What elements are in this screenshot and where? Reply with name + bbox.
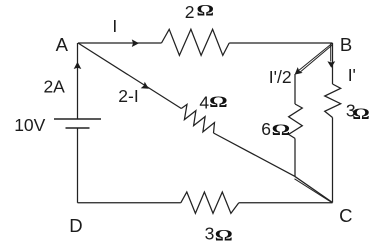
wire right edge B down to 3ohm [332,43,334,84]
svg-text:2-I: 2-I [118,86,138,106]
svg-text:C: C [339,205,352,226]
resistor 3ohm bottom zigzag [181,192,239,213]
svg-text:2A: 2A [43,77,65,97]
svg-text:4: 4 [199,93,209,113]
svg-text:2: 2 [185,2,195,22]
resistor 4ohm zigzag [181,104,214,133]
current arrow 2A [74,62,82,69]
wire 4ohm to 6ohm junction [214,133,295,176]
battery V1 plate long [54,118,101,120]
wire battery bottom to node D [77,128,79,203]
wire B to I'/2 arrow upper [297,43,332,72]
wire 3ohm to node C [239,202,333,204]
wire B to I'/2 arrow lower [299,45,333,74]
wire 2ohm to node B [229,42,332,44]
svg-text:B: B [340,34,352,55]
svg-text:Ω: Ω [197,3,215,20]
resistor 2ohm zigzag [162,29,230,55]
wire 3ohm right to node C [332,118,334,203]
svg-text:I'/2: I'/2 [269,67,292,87]
svg-text:I': I' [348,65,356,85]
svg-text:Ω: Ω [209,94,228,111]
wire top-left A to 2ohm resistor [78,42,162,44]
wire diagonal A to 4ohm [78,43,181,109]
battery V1 plate short [66,127,90,129]
wire I' arrow annotation line [330,44,332,62]
current arrow 2-I [141,82,149,89]
wire junction to node C [295,176,333,202]
resistor 6ohm zigzag [289,104,303,138]
wire 6ohm branch top [294,74,296,104]
svg-text:Ω: Ω [215,227,233,244]
svg-text:I: I [112,16,117,36]
current arrow I' [327,61,335,67]
svg-text:10V: 10V [14,115,45,135]
wire left edge A to battery top [77,43,79,119]
svg-text:A: A [56,34,69,55]
svg-text:6: 6 [261,119,271,139]
svg-text:3: 3 [205,223,215,243]
current arrow I'/2 [295,67,303,75]
resistor 3ohm right zigzag [325,84,341,118]
wire 6ohm bottom to junction [294,138,296,176]
svg-text:Ω: Ω [352,106,370,123]
wire junction to C second line [295,179,333,203]
svg-text:D: D [69,215,82,236]
svg-text:Ω: Ω [272,122,291,139]
current arrow I [132,39,139,47]
wire bottom D to 3ohm resistor [78,202,181,204]
